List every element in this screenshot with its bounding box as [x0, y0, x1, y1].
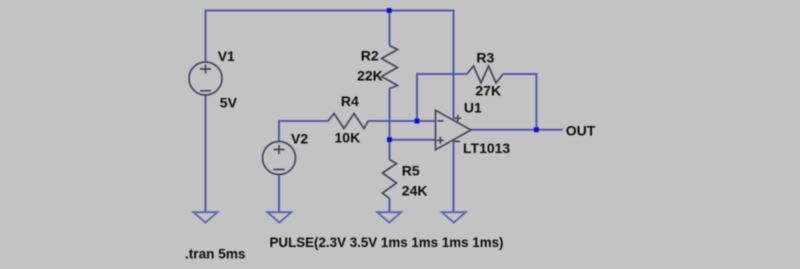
- wire plus node to op-amp non-inverting input: [390, 139, 436, 141]
- svg-text:R4: R4: [341, 93, 359, 109]
- wire op-amp V- to ground: [453, 140, 455, 213]
- svg-text:R3: R3: [476, 49, 494, 65]
- junction plus node: [387, 137, 392, 142]
- wire R3 right lead down to output node: [503, 74, 536, 130]
- voltage source V1: [189, 62, 222, 95]
- op-amp U1 triangle: [436, 110, 472, 149]
- svg-text:U1: U1: [464, 100, 482, 116]
- junction feedback at inverting input: [415, 119, 420, 124]
- svg-text:24K: 24K: [402, 183, 428, 199]
- svg-text:R5: R5: [402, 163, 420, 179]
- ground under V1: [194, 212, 218, 222]
- ground under V2: [267, 212, 291, 222]
- svg-text:5V: 5V: [220, 94, 238, 110]
- svg-text:27K: 27K: [475, 83, 501, 99]
- resistor R3: [467, 66, 503, 83]
- wire V1 bottom to ground: [205, 95, 207, 213]
- wire top rail from V1 to op-amp V+: [206, 11, 454, 120]
- resistor R5: [383, 160, 397, 199]
- wire R2 top lead: [389, 11, 391, 46]
- resistor R4: [328, 114, 368, 129]
- wire V2 bottom to ground: [278, 175, 280, 214]
- wire V2 top to R4 left lead: [279, 121, 328, 142]
- svg-text:LT1013: LT1013: [463, 140, 510, 156]
- junction output node: [534, 127, 539, 132]
- op-amp inverting input marker: [438, 120, 444, 122]
- op-amp V+ pin marker: [454, 115, 461, 122]
- op-amp V- pin marker: [454, 140, 460, 142]
- ground under op-amp: [442, 212, 466, 222]
- svg-text:R2: R2: [361, 47, 379, 63]
- svg-text:V2: V2: [291, 131, 308, 147]
- svg-text:.tran 5ms: .tran 5ms: [185, 246, 246, 262]
- svg-text:V1: V1: [218, 48, 235, 64]
- wire R4 right to op-amp inverting input: [368, 120, 436, 122]
- wire op-amp output to OUT stub: [471, 129, 563, 131]
- wire feedback node up to R3 left lead: [417, 74, 467, 121]
- svg-text:OUT: OUT: [566, 123, 596, 139]
- svg-text:PULSE(2.3V 3.5V 1ms 1ms 1ms 1m: PULSE(2.3V 3.5V 1ms 1ms 1ms 1ms): [270, 234, 504, 250]
- voltage source V2: [263, 142, 296, 175]
- wire R5 bottom to ground: [389, 199, 391, 214]
- resistor R2: [382, 46, 398, 89]
- ground under R5: [377, 212, 401, 222]
- junction R2 top on rail: [387, 8, 392, 13]
- op-amp non-inverting input marker: [437, 137, 444, 144]
- svg-text:10K: 10K: [335, 129, 361, 145]
- svg-text:22K: 22K: [357, 67, 383, 83]
- wire R2 bottom through plus node to R5 top: [389, 89, 391, 160]
